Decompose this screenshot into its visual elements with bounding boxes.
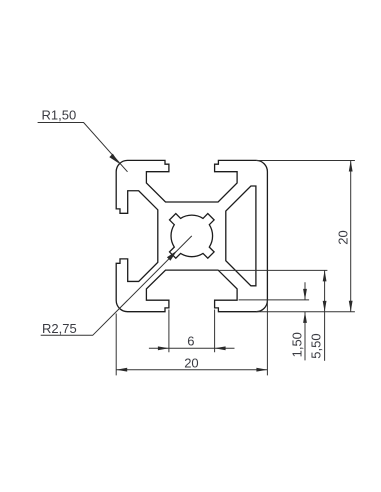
svg-text:1,50: 1,50 — [289, 332, 304, 357]
svg-text:5,50: 5,50 — [309, 333, 324, 358]
dimension R1,50 leader — [38, 123, 128, 172]
dimension 20 right line — [350, 161, 352, 312]
dimension 6 extension lines — [169, 310, 215, 353]
svg-text:R2,75: R2,75 — [42, 321, 77, 336]
dimension 1,50 line tails — [304, 282, 306, 360]
arrow 5,50 top — [323, 270, 327, 281]
arrow R1,50 at corner arc — [109, 154, 119, 164]
dimension 1,50 extension line — [239, 299, 310, 301]
dimension R2,75 leader — [41, 236, 192, 335]
arrow 20 right top — [349, 161, 353, 172]
dimension 5,50 line — [324, 270, 326, 360]
arrow 20 right bottom — [349, 301, 353, 312]
closed cavity on right side — [226, 186, 256, 286]
arrow 6 left — [158, 346, 169, 350]
dimension 20 right extension lines — [256, 161, 355, 312]
dimension 20 bottom line — [116, 369, 267, 371]
arrow 1,50 top (pointing down) — [303, 289, 307, 300]
profile outer contour with three T-slots — [116, 160, 267, 311]
central core bore with four diagonal notches — [170, 214, 215, 259]
arrow 1,50 bottom (pointing up) — [303, 312, 307, 323]
arrow 20 bottom right — [256, 368, 267, 372]
svg-text:R1,50: R1,50 — [42, 108, 77, 123]
arrow 6 right — [215, 346, 226, 350]
svg-text:20: 20 — [184, 355, 198, 370]
dimension 5,50 extension line — [219, 269, 327, 271]
dimension 6 line with outside tails — [149, 347, 235, 349]
svg-text:20: 20 — [335, 230, 350, 244]
arrow 5,50 bottom — [323, 301, 327, 312]
arrow 20 bottom left — [116, 368, 127, 372]
dimension 20 bottom extension lines — [116, 301, 267, 376]
arrow R2,75 at bore — [167, 251, 177, 261]
svg-text:6: 6 — [187, 334, 194, 349]
